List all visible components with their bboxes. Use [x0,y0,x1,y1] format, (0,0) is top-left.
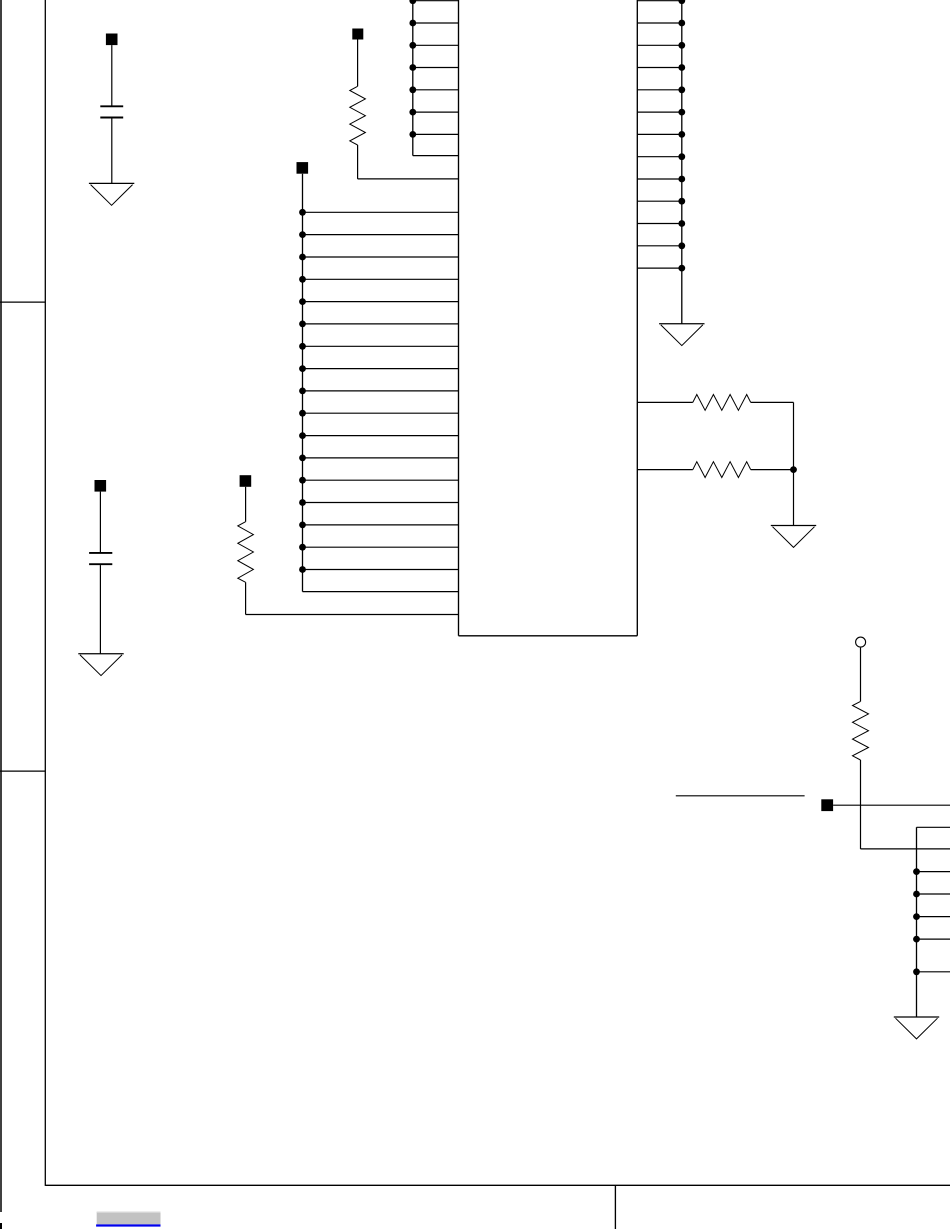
net label square N4 [821,799,833,811]
wire bus E rung 3 to page edge [917,916,950,918]
junction bus B 6 [409,109,416,116]
wire bus B rung 7 to U1 [413,133,459,135]
wire U1 pin to bus C rung 11 [637,223,682,225]
junction bus C 7 [678,131,685,138]
junction bus A 5 [299,298,306,305]
pin open circle R4 top [856,637,866,647]
junction bus C 1 [678,0,685,4]
ground GND1 [89,183,134,205]
wire U1 pin to bus C rung 5 [637,89,682,91]
wire bus E vertical [916,827,918,1017]
junction bus E 3 [913,913,920,920]
ground GND3 [771,526,816,548]
junction bus A 16 [299,544,306,551]
sheet outer border left [0,0,2,1212]
wire bus A rung 7 to U1 [303,345,459,347]
wire bus E rung 1 to page edge [917,871,950,873]
wire N1 to C1 [111,45,113,106]
junction bus A 7 [299,343,306,350]
junction node D [790,466,797,473]
logo placeholder box [97,1212,161,1225]
wire R4 down [860,760,862,849]
wire bus E rung 2 to page edge [917,893,950,895]
wire bus B rung 1 to U1 [413,0,459,2]
junction bus C 11 [678,220,685,227]
junction bus A 13 [299,477,306,484]
IC U1 right edge [636,0,638,636]
junction bus C 10 [678,198,685,205]
wire bus A rung 17 to U1 [303,569,459,571]
junction bus E 1 [913,868,920,875]
resistor R5 [238,522,254,583]
net label square N2 [352,29,363,40]
wire bus C vertical [681,0,683,324]
IC U1 bottom edge [459,635,638,637]
wire U1 pin to R2 [637,401,693,403]
wire bus A vertical [302,174,304,592]
wire U1 pin to bus C rung 7 [637,133,682,135]
wire U1 pin to bus C rung 3 [637,44,682,46]
junction bus B 2 [409,20,416,27]
border zone divider tick bottom [614,1185,616,1229]
junction bus C 2 [678,20,685,27]
wire R4 to page edge [861,848,950,850]
wire bus B vertical [412,0,414,156]
junction bus A 15 [299,522,306,529]
net label square N3 [297,162,309,174]
logo underline [96,1224,160,1226]
junction bus A 9 [299,388,306,395]
wire bus B rung 3 to U1 [413,44,459,46]
wire U1 pin to bus C rung 8 [637,156,682,158]
sheet inner border bottom [45,1184,950,1186]
wire bus A rung 1 to U1 [303,211,459,213]
junction bus B 4 [409,64,416,71]
sheet inner border left [44,0,46,1186]
wire bus A rung 15 to U1 [303,524,459,526]
wire bus E rung 4 to page edge [917,938,950,940]
junction bus C 9 [678,176,685,183]
wire U1 pin to R3 [637,469,693,471]
wire bus A rung 6 to U1 [303,323,459,325]
junction bus B 3 [409,42,416,49]
wire U1 pin to bus C rung 10 [637,200,682,202]
wire R1 down [357,145,359,179]
wire U1 pin to bus C rung 1 [637,0,682,2]
wire bus B bottom corner to U1 [413,155,459,157]
wire U1 pin to bus C rung 12 [637,245,682,247]
wire R5 to U1 pin [246,614,459,616]
net label square N6 [240,475,252,487]
wire N6 to R5 [245,487,247,522]
op IC U1 left edge [458,0,460,636]
wire segment floating [676,795,805,797]
net label square N5 [95,480,107,492]
wire R5 down [245,582,247,614]
sheet outer border left bottom mark [0,1223,2,1229]
wire bus B rung 6 to U1 [413,111,459,113]
wire bus A rung 2 to U1 [303,234,459,236]
junction bus A 11 [299,432,306,439]
junction bus C 5 [678,86,685,93]
junction bus B 7 [409,131,416,138]
wire bus A rung 8 to U1 [303,368,459,370]
wire U1 pin to bus C rung 6 [637,111,682,113]
wire bus A rung 5 to U1 [303,301,459,303]
wire U1 pin to bus C rung 2 [637,22,682,24]
wire bus A rung 14 to U1 [303,502,459,504]
junction bus C 3 [678,42,685,49]
junction bus A 8 [299,365,306,372]
junction bus E 4 [913,936,920,943]
junction bus A 17 [299,566,306,573]
junction bus B 1 [409,0,416,4]
wire bus A rung 13 to U1 [303,479,459,481]
wire bus A rung 9 to U1 [303,390,459,392]
wire bus B rung 5 to U1 [413,89,459,91]
net label square N1 [106,34,118,46]
wire circle to R4 [860,648,862,702]
junction bus E 2 [913,891,920,898]
wire R1 to U1 pin [358,178,459,180]
wire U1 pin to bus C rung 13 [637,267,682,269]
ground GND4 [894,1017,939,1039]
junction bus A 3 [299,254,306,261]
resistor R1 [350,86,366,145]
border zone divider tick lower [0,770,45,772]
capacitor C1 [100,106,123,117]
wire C2 to ground [99,565,101,654]
wire bus E rung 5 to page edge [917,971,950,973]
border zone divider tick upper [0,301,45,303]
wire R3 to node D [751,469,794,471]
junction bus A 12 [299,455,306,462]
junction bus B 5 [409,86,416,93]
wire bus B rung 4 to U1 [413,67,459,69]
capacitor C2 [89,553,112,564]
junction bus C 12 [678,242,685,249]
resistor R2 [693,395,751,411]
wire bus A rung 12 to U1 [303,457,459,459]
junction bus A 6 [299,321,306,328]
resistor R4 [853,701,869,760]
wire bus A rung 11 to U1 [303,435,459,437]
wire N4 to page edge [833,804,950,806]
wire bus A bottom corner to U1 [303,591,459,593]
wire U1 pin to bus C rung 9 [637,178,682,180]
wire R2 to node D [751,401,794,403]
junction bus A 10 [299,410,306,417]
junction bus C 13 [678,265,685,272]
wire N2 to R1 [357,40,359,87]
wire bus E top corner from page edge [917,826,950,828]
ground GND2 [659,324,704,346]
wire bus B rung 2 to U1 [413,22,459,24]
junction bus E 5 [913,968,920,975]
junction bus C 8 [678,153,685,160]
junction bus A 2 [299,231,306,238]
junction bus A 1 [299,209,306,216]
wire bus A rung 4 to U1 [303,278,459,280]
wire U1 pin to bus C rung 4 [637,67,682,69]
junction bus C 4 [678,64,685,71]
wire node D vertical [793,402,795,525]
wire bus A rung 10 to U1 [303,412,459,414]
ground GND5 [78,654,123,676]
junction bus A 14 [299,499,306,506]
resistor R3 [693,462,751,478]
wire bus A rung 3 to U1 [303,256,459,258]
junction bus A 4 [299,276,306,283]
wire C1 to ground [111,118,113,183]
wire N5 to C2 [99,492,101,552]
junction bus C 6 [678,109,685,116]
wire bus A rung 16 to U1 [303,546,459,548]
